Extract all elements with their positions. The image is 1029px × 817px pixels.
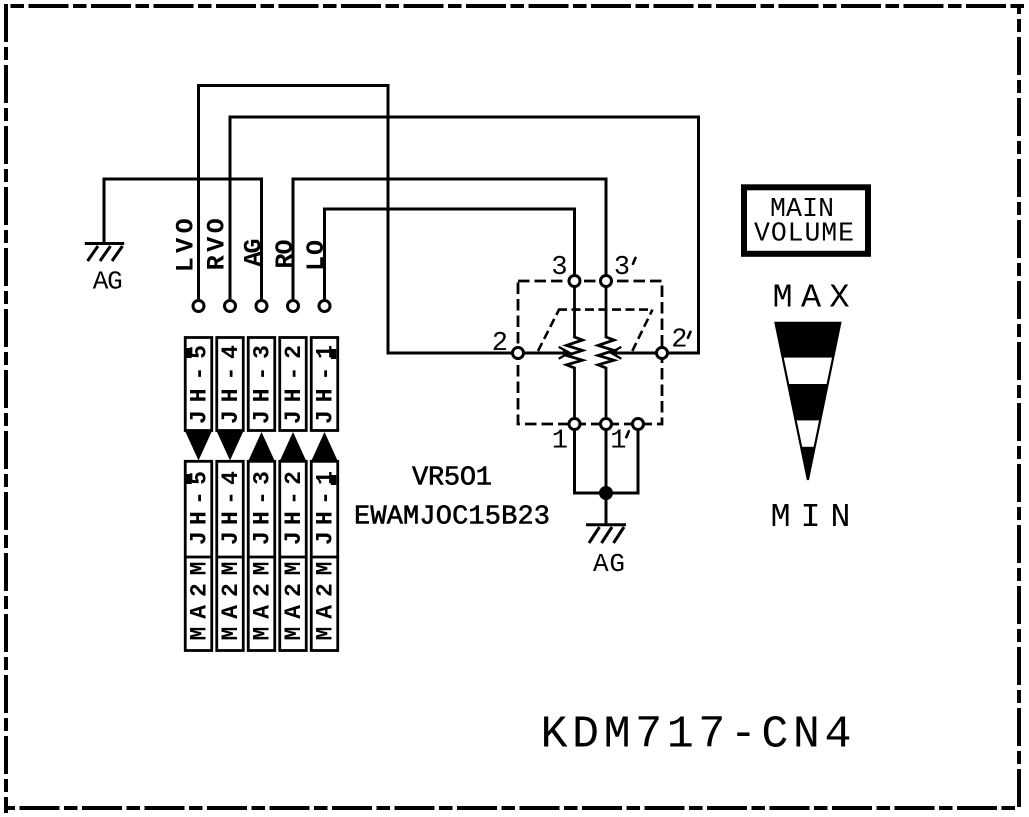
svg-text:VR5O1: VR5O1	[412, 463, 492, 493]
svg-text:MIN: MIN	[771, 499, 851, 537]
svg-text:RVO: RVO	[202, 218, 231, 270]
svg-text:AG: AG	[93, 266, 123, 296]
svg-text:1: 1	[552, 427, 568, 457]
svg-text:LO: LO	[302, 240, 331, 271]
svg-text:LVO: LVO	[172, 218, 201, 272]
svg-text:EWAMJOC15B23: EWAMJOC15B23	[354, 503, 550, 533]
svg-text:AG: AG	[593, 549, 625, 579]
svg-text:1: 1	[610, 427, 626, 457]
svg-text:2: 2	[492, 329, 508, 359]
svg-text:RO: RO	[271, 240, 300, 269]
svg-text:3: 3	[551, 253, 567, 283]
svg-text:MAX: MAX	[773, 279, 850, 317]
svg-text:VOLUME: VOLUME	[754, 219, 854, 249]
svg-text:3: 3	[614, 253, 630, 283]
svg-text:AG: AG	[240, 239, 269, 267]
svg-text:2: 2	[671, 326, 687, 356]
